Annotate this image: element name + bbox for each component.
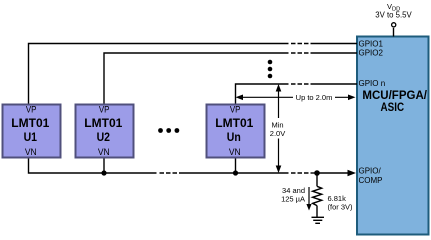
wire U1 VP to GPIO1 bbox=[29, 44, 289, 104]
wire bus dashed break 2 bbox=[291, 172, 309, 174]
LMT01 U1 bbox=[3, 105, 61, 159]
wire VN bus solid to resistor node bbox=[179, 172, 289, 174]
ellipsis GPIO channels bbox=[268, 60, 273, 79]
svg-text:GPIO2: GPIO2 bbox=[359, 49, 384, 58]
svg-text:VP: VP bbox=[99, 105, 110, 116]
wire junction to GPIO/COMP with arrow bbox=[317, 170, 356, 176]
svg-text:(for 3V): (for 3V) bbox=[328, 202, 354, 211]
wire VDD to MCU top bbox=[393, 28, 395, 37]
wire Un VN drop bbox=[235, 159, 237, 174]
svg-text:ASIC: ASIC bbox=[381, 102, 405, 114]
wire GPIO1 dashed break bbox=[291, 43, 309, 45]
svg-text:VN: VN bbox=[25, 147, 37, 158]
svg-text:125 µA: 125 µA bbox=[281, 194, 305, 203]
svg-text:U1: U1 bbox=[24, 130, 38, 144]
svg-text:LMT01: LMT01 bbox=[84, 116, 122, 130]
resistor R1 6.81k bbox=[313, 173, 322, 217]
wire GPIO1 into MCU bbox=[311, 43, 358, 45]
ground bbox=[312, 217, 325, 223]
svg-text:LMT01: LMT01 bbox=[11, 116, 49, 130]
dimension Up to 2.0m bbox=[236, 93, 356, 102]
svg-text:Un: Un bbox=[227, 130, 241, 144]
wire GPIO n dashed break bbox=[291, 83, 309, 85]
LMT01 Un bbox=[207, 105, 265, 159]
wire U2 VN drop bbox=[103, 159, 105, 174]
svg-text:VP: VP bbox=[230, 105, 241, 116]
dimension Min 2.0V bbox=[270, 84, 285, 173]
wire VN bus dashed break bbox=[160, 172, 178, 174]
wire bus to junction bbox=[311, 172, 318, 174]
ellipsis between U2 and Un bbox=[158, 128, 179, 133]
wire Un VP to GPIO n bbox=[236, 84, 289, 104]
junction dot U2 VN bbox=[101, 170, 106, 175]
junction dot resistor node bbox=[314, 170, 320, 176]
svg-text:GPIO n: GPIO n bbox=[359, 79, 386, 88]
svg-text:3V to 5.5V: 3V to 5.5V bbox=[375, 10, 412, 19]
LMT01 U2 bbox=[76, 105, 134, 159]
MCU/FPGA/ASIC block U4 bbox=[357, 37, 429, 235]
svg-text:GPIO1: GPIO1 bbox=[359, 39, 384, 48]
current arrow 34 and 125 uA bbox=[281, 186, 312, 211]
wire GPIO2 into MCU bbox=[311, 52, 358, 54]
power terminal VDD bbox=[375, 2, 412, 27]
svg-text:MCU/FPGA/: MCU/FPGA/ bbox=[362, 90, 427, 102]
svg-text:LMT01: LMT01 bbox=[215, 116, 253, 130]
svg-text:U2: U2 bbox=[97, 130, 111, 144]
svg-text:Min: Min bbox=[271, 120, 283, 129]
resistor value label bbox=[328, 194, 354, 211]
svg-text:VN: VN bbox=[229, 147, 241, 158]
wire VN bus U1 to junction bbox=[29, 159, 157, 174]
svg-text:Up to 2.0m: Up to 2.0m bbox=[296, 93, 333, 102]
wire GPIO n into MCU bbox=[311, 83, 358, 85]
junction dot Un VN bbox=[233, 170, 238, 175]
svg-text:2.0V: 2.0V bbox=[270, 129, 285, 138]
svg-text:VN: VN bbox=[98, 147, 110, 158]
wire GPIO2 dashed break bbox=[291, 52, 309, 54]
wire U2 VP to GPIO2 bbox=[104, 53, 289, 104]
svg-text:GPIO/: GPIO/ bbox=[359, 167, 382, 176]
svg-text:COMP: COMP bbox=[359, 176, 383, 185]
svg-text:VP: VP bbox=[26, 105, 37, 116]
